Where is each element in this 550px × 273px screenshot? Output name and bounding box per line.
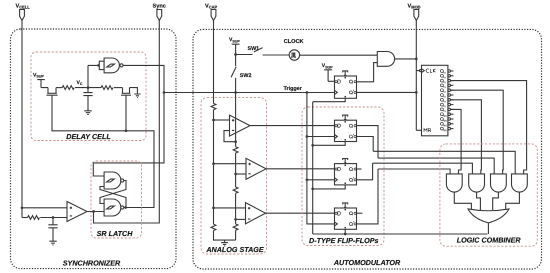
wire VCAP divider column bbox=[213, 110, 215, 225]
wire trigger clock column bbox=[307, 93, 335, 224]
node FF1 Qbar join bbox=[415, 91, 418, 94]
node U4 out Sync join bbox=[92, 210, 95, 213]
wire M2 drain to ground bbox=[130, 88, 138, 94]
counter output Q6 bbox=[440, 94, 443, 97]
counter output Q5 bbox=[440, 89, 443, 92]
tie high FF4 preset bbox=[342, 203, 348, 208]
node U3 output bbox=[124, 206, 127, 209]
wire FF4 Qbar to combiner row bbox=[357, 169, 451, 224]
wire U7 output to FF3 D bbox=[266, 168, 335, 170]
wire FF4 Q stub bbox=[357, 212, 363, 214]
svg-text:LOGIC COMBINER: LOGIC COMBINER bbox=[457, 235, 522, 244]
counter output Q13 bbox=[440, 127, 443, 130]
flip-flop U13 FF3 bbox=[335, 164, 357, 185]
svg-text:D-TYPE FLIP-FLOPs: D-TYPE FLIP-FLOPs bbox=[309, 236, 378, 245]
wire R3 to comparator minus input bbox=[40, 217, 67, 219]
wire R2 to M2 bbox=[114, 87, 123, 89]
transistor M2 bbox=[123, 88, 130, 94]
wire Sync to SR latch reset node bbox=[94, 20, 160, 223]
node VSUP tee bbox=[234, 53, 237, 56]
wire reset column bbox=[312, 102, 314, 234]
SR latch enclosure bbox=[91, 161, 142, 238]
ground C1 bbox=[84, 111, 91, 115]
comparator U7 bbox=[214, 163, 247, 165]
counter output Q12 bbox=[440, 122, 443, 125]
wire R1 to VC node to R2 bbox=[75, 87, 101, 89]
wire FF2 Q to combiner row bbox=[357, 126, 495, 174]
wire M1 drain to R1 bbox=[56, 87, 62, 89]
wire ladder low bbox=[235, 193, 237, 224]
wire U5 output to VMOD node bbox=[395, 58, 417, 60]
wire FF1 Qbar to MR column bbox=[357, 91, 417, 93]
wire trigger row bbox=[164, 92, 335, 94]
svg-text:CLOCK: CLOCK bbox=[284, 39, 304, 45]
node VC bbox=[87, 86, 90, 89]
wire G3 output to OR bbox=[493, 192, 499, 210]
wire FF4 reset stub bbox=[344, 229, 346, 234]
svg-text:VSUP: VSUP bbox=[229, 37, 240, 43]
wire FF1 Q to U5 input bbox=[357, 63, 378, 82]
tie high FF3 preset bbox=[342, 159, 348, 164]
wire minus input row lead bbox=[22, 217, 28, 219]
counter output Q3 bbox=[440, 79, 443, 82]
wire ladder to U8 minus bbox=[236, 218, 246, 220]
node comp3 plus bbox=[212, 207, 215, 210]
svg-text:VC: VC bbox=[77, 80, 83, 86]
resistor R7 bbox=[233, 187, 238, 193]
flip-flop U11 FF1 bbox=[335, 76, 357, 98]
wire G5 output to reset rail bbox=[487, 223, 489, 234]
wire M2 gate lead bbox=[125, 95, 127, 131]
wire G2 output to OR bbox=[477, 192, 481, 210]
flip-flop U14 FF4 bbox=[335, 208, 357, 229]
ground C2 bbox=[49, 241, 56, 245]
svg-text:SW1: SW1 bbox=[248, 46, 260, 52]
analog stage enclosure bbox=[201, 98, 267, 254]
comparator U6 bbox=[214, 119, 230, 121]
wire crosscouple U3 out to U2 input bbox=[100, 187, 126, 208]
and gate U5 bbox=[377, 52, 394, 67]
comparator U8 bbox=[214, 207, 246, 209]
resistor R4 bbox=[211, 103, 216, 109]
node ladder U6 minus bbox=[234, 140, 237, 143]
svg-text:SW2: SW2 bbox=[240, 73, 252, 79]
wire FF1 reset stub bbox=[313, 98, 346, 101]
resistor R2 bbox=[101, 86, 113, 90]
comparator U4 bbox=[67, 202, 87, 222]
ground analog stage bbox=[221, 240, 228, 246]
wire ground rail analog bbox=[214, 230, 236, 240]
wire Q7 to combiner gate G2 bbox=[451, 100, 482, 174]
node rail M2 gate bbox=[125, 129, 128, 132]
wire FF3 clock branch bbox=[307, 179, 335, 181]
wire U6 minus feedback loop bbox=[224, 131, 236, 142]
svg-text:AUTOMODULATOR: AUTOMODULATOR bbox=[333, 258, 401, 267]
nand U3 bbox=[104, 199, 121, 216]
wire FF2 reset stub bbox=[313, 142, 346, 146]
wire FF3 Qbar to combiner row bbox=[357, 163, 473, 180]
node comp1 plus bbox=[212, 119, 215, 122]
svg-text:VSUP: VSUP bbox=[33, 73, 44, 79]
tie high FF1 preset bbox=[342, 71, 348, 76]
wire FF2 clock branch bbox=[307, 136, 335, 138]
svg-text:ANALOG STAGE: ANALOG STAGE bbox=[205, 245, 264, 254]
wire G4 output to OR bbox=[506, 192, 520, 210]
node ladder U8 minus bbox=[234, 218, 237, 221]
resistor R8 bbox=[233, 224, 238, 230]
resistor R6 bbox=[233, 147, 238, 153]
wire crosscouple U2 out to U3 input bbox=[100, 181, 126, 204]
flip-flop U12 FF2 bbox=[335, 120, 357, 141]
wire Q3 to combiner gate G4 bbox=[451, 81, 527, 174]
wire VCAP lead bbox=[213, 20, 215, 103]
d-type flip-flops enclosure bbox=[302, 107, 384, 246]
svg-text:SR LATCH: SR LATCH bbox=[97, 229, 134, 238]
wire schmitt output to trigger tee and SR latch set input bbox=[93, 65, 164, 176]
and gate G1 bbox=[446, 174, 462, 192]
node VCELL plus-input tap bbox=[21, 206, 24, 209]
node trigger FF clock branch bbox=[306, 91, 309, 94]
wire U8 output to FF4 D bbox=[266, 212, 335, 214]
counter output Q4 bbox=[440, 84, 443, 87]
wire FF3 reset stub bbox=[313, 185, 346, 189]
and gate G3 bbox=[491, 174, 507, 192]
counter output Q10 bbox=[440, 113, 443, 116]
node VMOD bbox=[415, 58, 418, 61]
wire G1 output to OR bbox=[454, 192, 471, 210]
svg-text:DELAY CELL: DELAY CELL bbox=[66, 132, 110, 141]
wire Q5 to combiner gate G3 bbox=[451, 90, 504, 174]
resistor R5 bbox=[211, 224, 216, 230]
nand U2 bbox=[104, 172, 121, 189]
logic combiner enclosure bbox=[440, 144, 537, 246]
wire FF3 Q stub bbox=[357, 168, 362, 170]
svg-text:SYNCHRONIZER: SYNCHRONIZER bbox=[63, 258, 121, 267]
svg-text:VSUP: VSUP bbox=[322, 63, 333, 69]
counter output Q7 bbox=[440, 98, 443, 101]
wire FF2 Qbar to combiner row bbox=[357, 137, 516, 174]
wire U6 output to FF2 D bbox=[250, 125, 335, 127]
and gate G2 bbox=[469, 174, 485, 192]
node comp2 plus bbox=[212, 162, 215, 165]
wire VCELL vertical to comparator inputs bbox=[21, 20, 23, 217]
wire clock to U5 bbox=[300, 54, 378, 56]
wire VC riser to schmitt input bbox=[88, 65, 99, 87]
automodulator block border bbox=[193, 29, 542, 269]
schmitt buffer U1 bbox=[99, 61, 104, 69]
counter output Q1 bbox=[440, 70, 443, 73]
tie high FF2 preset bbox=[342, 115, 348, 120]
counter output Q8 bbox=[440, 103, 443, 106]
svg-text:Trigger: Trigger bbox=[284, 86, 303, 92]
capacitor C2 bbox=[48, 218, 57, 242]
wire reference ladder column bbox=[235, 93, 237, 147]
wire ladder mid bbox=[235, 153, 237, 187]
transistor M1 bbox=[48, 88, 56, 94]
counter output Q11 bbox=[440, 118, 443, 121]
wire U4 output to U3 input bbox=[87, 211, 104, 213]
svg-text:VCELL: VCELL bbox=[16, 4, 31, 10]
svg-text:Sync: Sync bbox=[153, 4, 166, 10]
node ladder U7 minus bbox=[234, 173, 237, 176]
node trigger ladder tap bbox=[234, 91, 237, 94]
counter output Q9 bbox=[440, 108, 443, 111]
wire ladder to U7 minus bbox=[236, 173, 246, 175]
node RC filter bbox=[52, 216, 55, 219]
wire reset rail to combiner bbox=[313, 233, 488, 235]
svg-text:VCAP: VCAP bbox=[205, 4, 218, 10]
or gate G5 bbox=[468, 209, 509, 223]
wire Q9 to combiner gate G1 bbox=[451, 109, 462, 173]
wire VMOD lead and counter clock feed bbox=[416, 20, 421, 130]
node schmitt input bbox=[97, 64, 100, 67]
counter U10 bbox=[422, 65, 448, 136]
capacitor C1 bbox=[83, 88, 92, 111]
counter output Q2 bbox=[440, 74, 443, 77]
synchronizer block border bbox=[11, 29, 177, 269]
ground M2 drain bbox=[134, 94, 140, 98]
svg-text:VMOD: VMOD bbox=[408, 4, 421, 10]
and gate G4 bbox=[512, 174, 528, 192]
resistor R3 bbox=[28, 216, 40, 220]
wire delay rail gate drive from M1 gate to latch output bbox=[52, 95, 154, 207]
delay cell enclosure bbox=[31, 52, 146, 141]
wire comparator plus input row bbox=[22, 207, 67, 209]
resistor R1 bbox=[62, 86, 74, 90]
node trigger tee bbox=[163, 91, 166, 94]
